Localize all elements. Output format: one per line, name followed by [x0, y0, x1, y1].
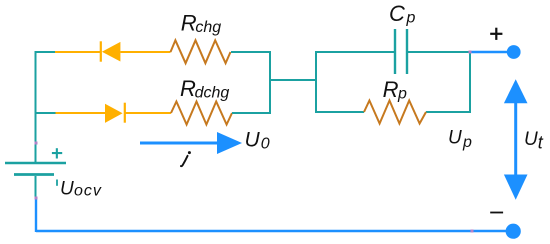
wire battery negative vertical (blue) [35, 198, 37, 232]
label U_t [524, 129, 544, 153]
wire bottom branch teal stub [35, 112, 56, 114]
battery + mark [52, 148, 62, 158]
wire RC network to positive terminal (blue) [470, 51, 508, 53]
label i [181, 151, 191, 166]
battery - tick mark [56, 180, 58, 186]
svg-text:U: U [60, 178, 74, 199]
connector mark bottom wire [471, 230, 474, 233]
svg-text:0: 0 [261, 136, 270, 153]
diode D1 (charge path, pointing left) [101, 41, 121, 61]
resistor R_p [364, 101, 426, 124]
wire top branch teal (R_chg to node B) [231, 51, 271, 53]
wire bottom branch orange (left of diode D2) [56, 112, 106, 114]
svg-text:U: U [245, 129, 261, 152]
resistor R_dchg [171, 102, 232, 125]
wire node B vertical [269, 51, 271, 114]
label - (negative terminal) [490, 212, 503, 214]
connector mark battery bottom [35, 197, 38, 200]
svg-text:dchg: dchg [195, 85, 230, 102]
battery U_ocv [5, 163, 66, 198]
svg-text:R: R [181, 11, 197, 36]
positive terminal dot [507, 45, 521, 59]
svg-text:p: p [462, 134, 472, 151]
svg-text:U: U [448, 128, 462, 149]
svg-text:chg: chg [195, 19, 221, 36]
current arrow i [140, 132, 242, 154]
svg-text:p: p [397, 86, 407, 103]
wire bottom (blue) [36, 230, 507, 232]
resistor R_chg [171, 40, 231, 63]
wire left vertical (node A to battery +) [35, 51, 37, 162]
label R_chg [181, 11, 221, 37]
wire top branch orange (diode D1 to R_chg) [120, 51, 170, 53]
label U_ocv [60, 178, 102, 199]
RC network frame (left, right edges and wire segments) [316, 51, 470, 113]
label R_dchg [180, 76, 229, 102]
svg-text:R: R [180, 76, 196, 101]
label C_p [389, 1, 416, 27]
svg-text:p: p [406, 10, 416, 27]
svg-text:t: t [538, 133, 544, 153]
capacitor C_p plates [395, 29, 407, 74]
wire top branch teal stub [35, 51, 56, 53]
svg-text:U: U [524, 129, 538, 150]
connector mark top right [469, 51, 472, 54]
voltage arrow U_t (double-headed) [504, 79, 528, 200]
diode D2 (discharge path, pointing right) [105, 103, 125, 123]
negative terminal dot [506, 224, 521, 239]
label U_0 [245, 129, 270, 153]
svg-text:R: R [383, 77, 399, 102]
svg-text:C: C [389, 1, 405, 26]
wire bottom branch teal (R_dchg to node B) [232, 112, 271, 114]
wire bottom branch orange (diode D2 to R_dchg) [125, 112, 171, 114]
connector mark node A [35, 142, 38, 145]
label U_p [448, 128, 472, 152]
label R_p [383, 77, 407, 103]
svg-text:ocv: ocv [74, 183, 102, 200]
label + (positive terminal) [490, 28, 502, 40]
wire node B to RC network [270, 79, 317, 81]
wire top branch orange (left of diode D1) [55, 51, 100, 53]
